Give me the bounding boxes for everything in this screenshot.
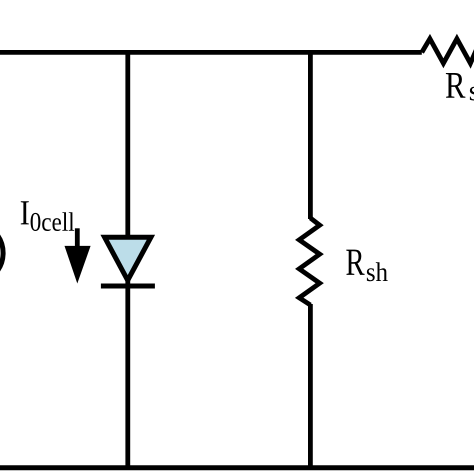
resistor Rsh (shunt resistor zigzag): [299, 218, 320, 305]
wire: bottom bus (full width): [0, 465, 474, 470]
diode D cathode bar: [101, 284, 155, 289]
wire: Rsh branch lower segment: [308, 304, 313, 469]
diode D (light-blue filled triangle): [105, 237, 151, 280]
current source (photocurrent source, circle cut off at left edge): [0, 223, 3, 284]
label I0cell ("I" with subscript "0cell"): [21, 201, 74, 231]
wire: Rsh branch upper segment: [308, 50, 313, 219]
wire: top bus from left edge to Rs: [0, 50, 422, 55]
label Rs ("R" with subscript "s"): [446, 73, 474, 101]
wire: diode branch vertical (top bus to bottom bus): [125, 50, 130, 469]
label Rsh ("R" with subscript "sh"): [346, 250, 387, 282]
current arrow I0cell (direction arrow): [65, 228, 91, 283]
resistor Rs (series resistor, cut off at right edge): [422, 39, 474, 64]
